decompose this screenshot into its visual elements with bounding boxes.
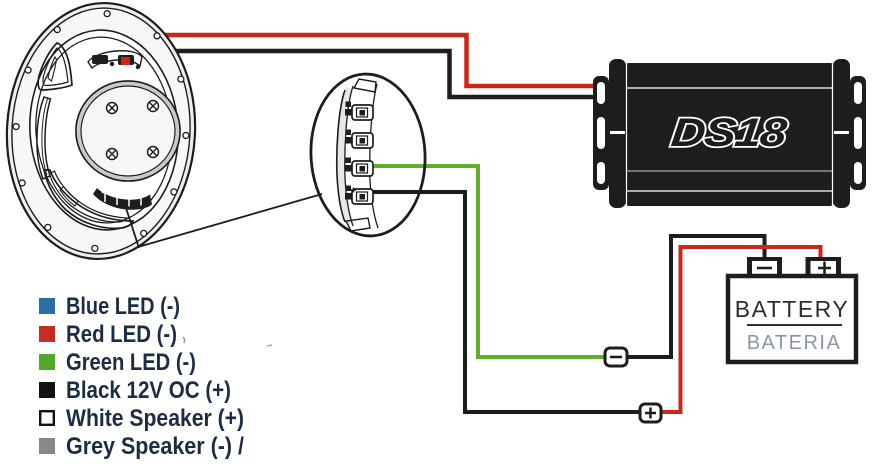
svg-text:Grey Speaker (-) /: Grey Speaker (-) /: [66, 433, 244, 460]
svg-text:Blue LED (-): Blue LED (-): [66, 293, 180, 320]
svg-text:Red LED (-): Red LED (-): [66, 321, 177, 348]
svg-text:DS18: DS18: [669, 111, 790, 155]
svg-text:Green LED (-): Green LED (-): [66, 349, 196, 376]
svg-text:Black 12V OC (+): Black 12V OC (+): [66, 377, 231, 404]
svg-text:BATTERY: BATTERY: [735, 296, 849, 322]
svg-text:BATERIA: BATERIA: [747, 332, 842, 354]
svg-text:White Speaker (+): White Speaker (+): [66, 405, 244, 432]
